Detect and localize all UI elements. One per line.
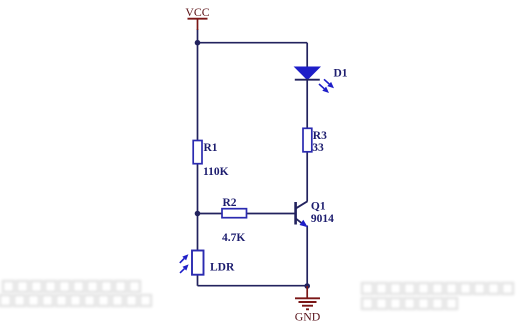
resistor R2 [222, 209, 247, 218]
LED D1 [295, 67, 334, 93]
wire right vertical upper (top corner to collector) [306, 43, 308, 201]
wire bottom horizontal [198, 285, 308, 287]
resistor R1 [193, 141, 202, 164]
power symbol VCC [185, 5, 209, 30]
svg-text:9014: 9014 [311, 213, 334, 225]
svg-text:33: 33 [312, 142, 324, 154]
wire right vertical lower (emitter to ground node) [306, 226, 308, 287]
svg-text:GND: GND [295, 310, 321, 324]
node ground junction [304, 283, 310, 289]
ground [295, 286, 321, 324]
svg-text:VCC: VCC [185, 5, 209, 19]
wire left vertical (VCC to bottom) [197, 29, 199, 286]
wire base row (node to Q1 base) [198, 213, 295, 215]
LDR arrow 1 [180, 259, 184, 263]
node top-left junction [195, 40, 201, 46]
watermark right line 2 [362, 298, 457, 309]
watermark left line 2 [0, 295, 151, 306]
svg-text:4.7K: 4.7K [222, 232, 245, 244]
svg-text:R2: R2 [223, 197, 237, 209]
collector diagonal [296, 201, 308, 208]
svg-text:Q1: Q1 [311, 201, 326, 213]
LED arrow 1 [324, 79, 329, 84]
emitter arrow [300, 220, 308, 227]
svg-text:110K: 110K [203, 166, 229, 178]
transistor Q1 [296, 201, 308, 227]
svg-text:LDR: LDR [210, 262, 235, 274]
resistor R3 [303, 128, 312, 152]
node base junction [195, 211, 201, 217]
base bar [294, 202, 297, 225]
photoresistor LDR [180, 251, 204, 275]
wire top horizontal [198, 42, 308, 44]
LED arrow 2 [319, 84, 324, 89]
svg-text:R3: R3 [313, 130, 327, 142]
watermark right line 1 [362, 283, 513, 294]
LDR arrow 2 [180, 269, 184, 273]
emitter diagonal [296, 219, 302, 223]
watermark left line 1 [3, 281, 140, 292]
svg-text:D1: D1 [334, 68, 348, 80]
svg-text:R1: R1 [204, 142, 218, 154]
